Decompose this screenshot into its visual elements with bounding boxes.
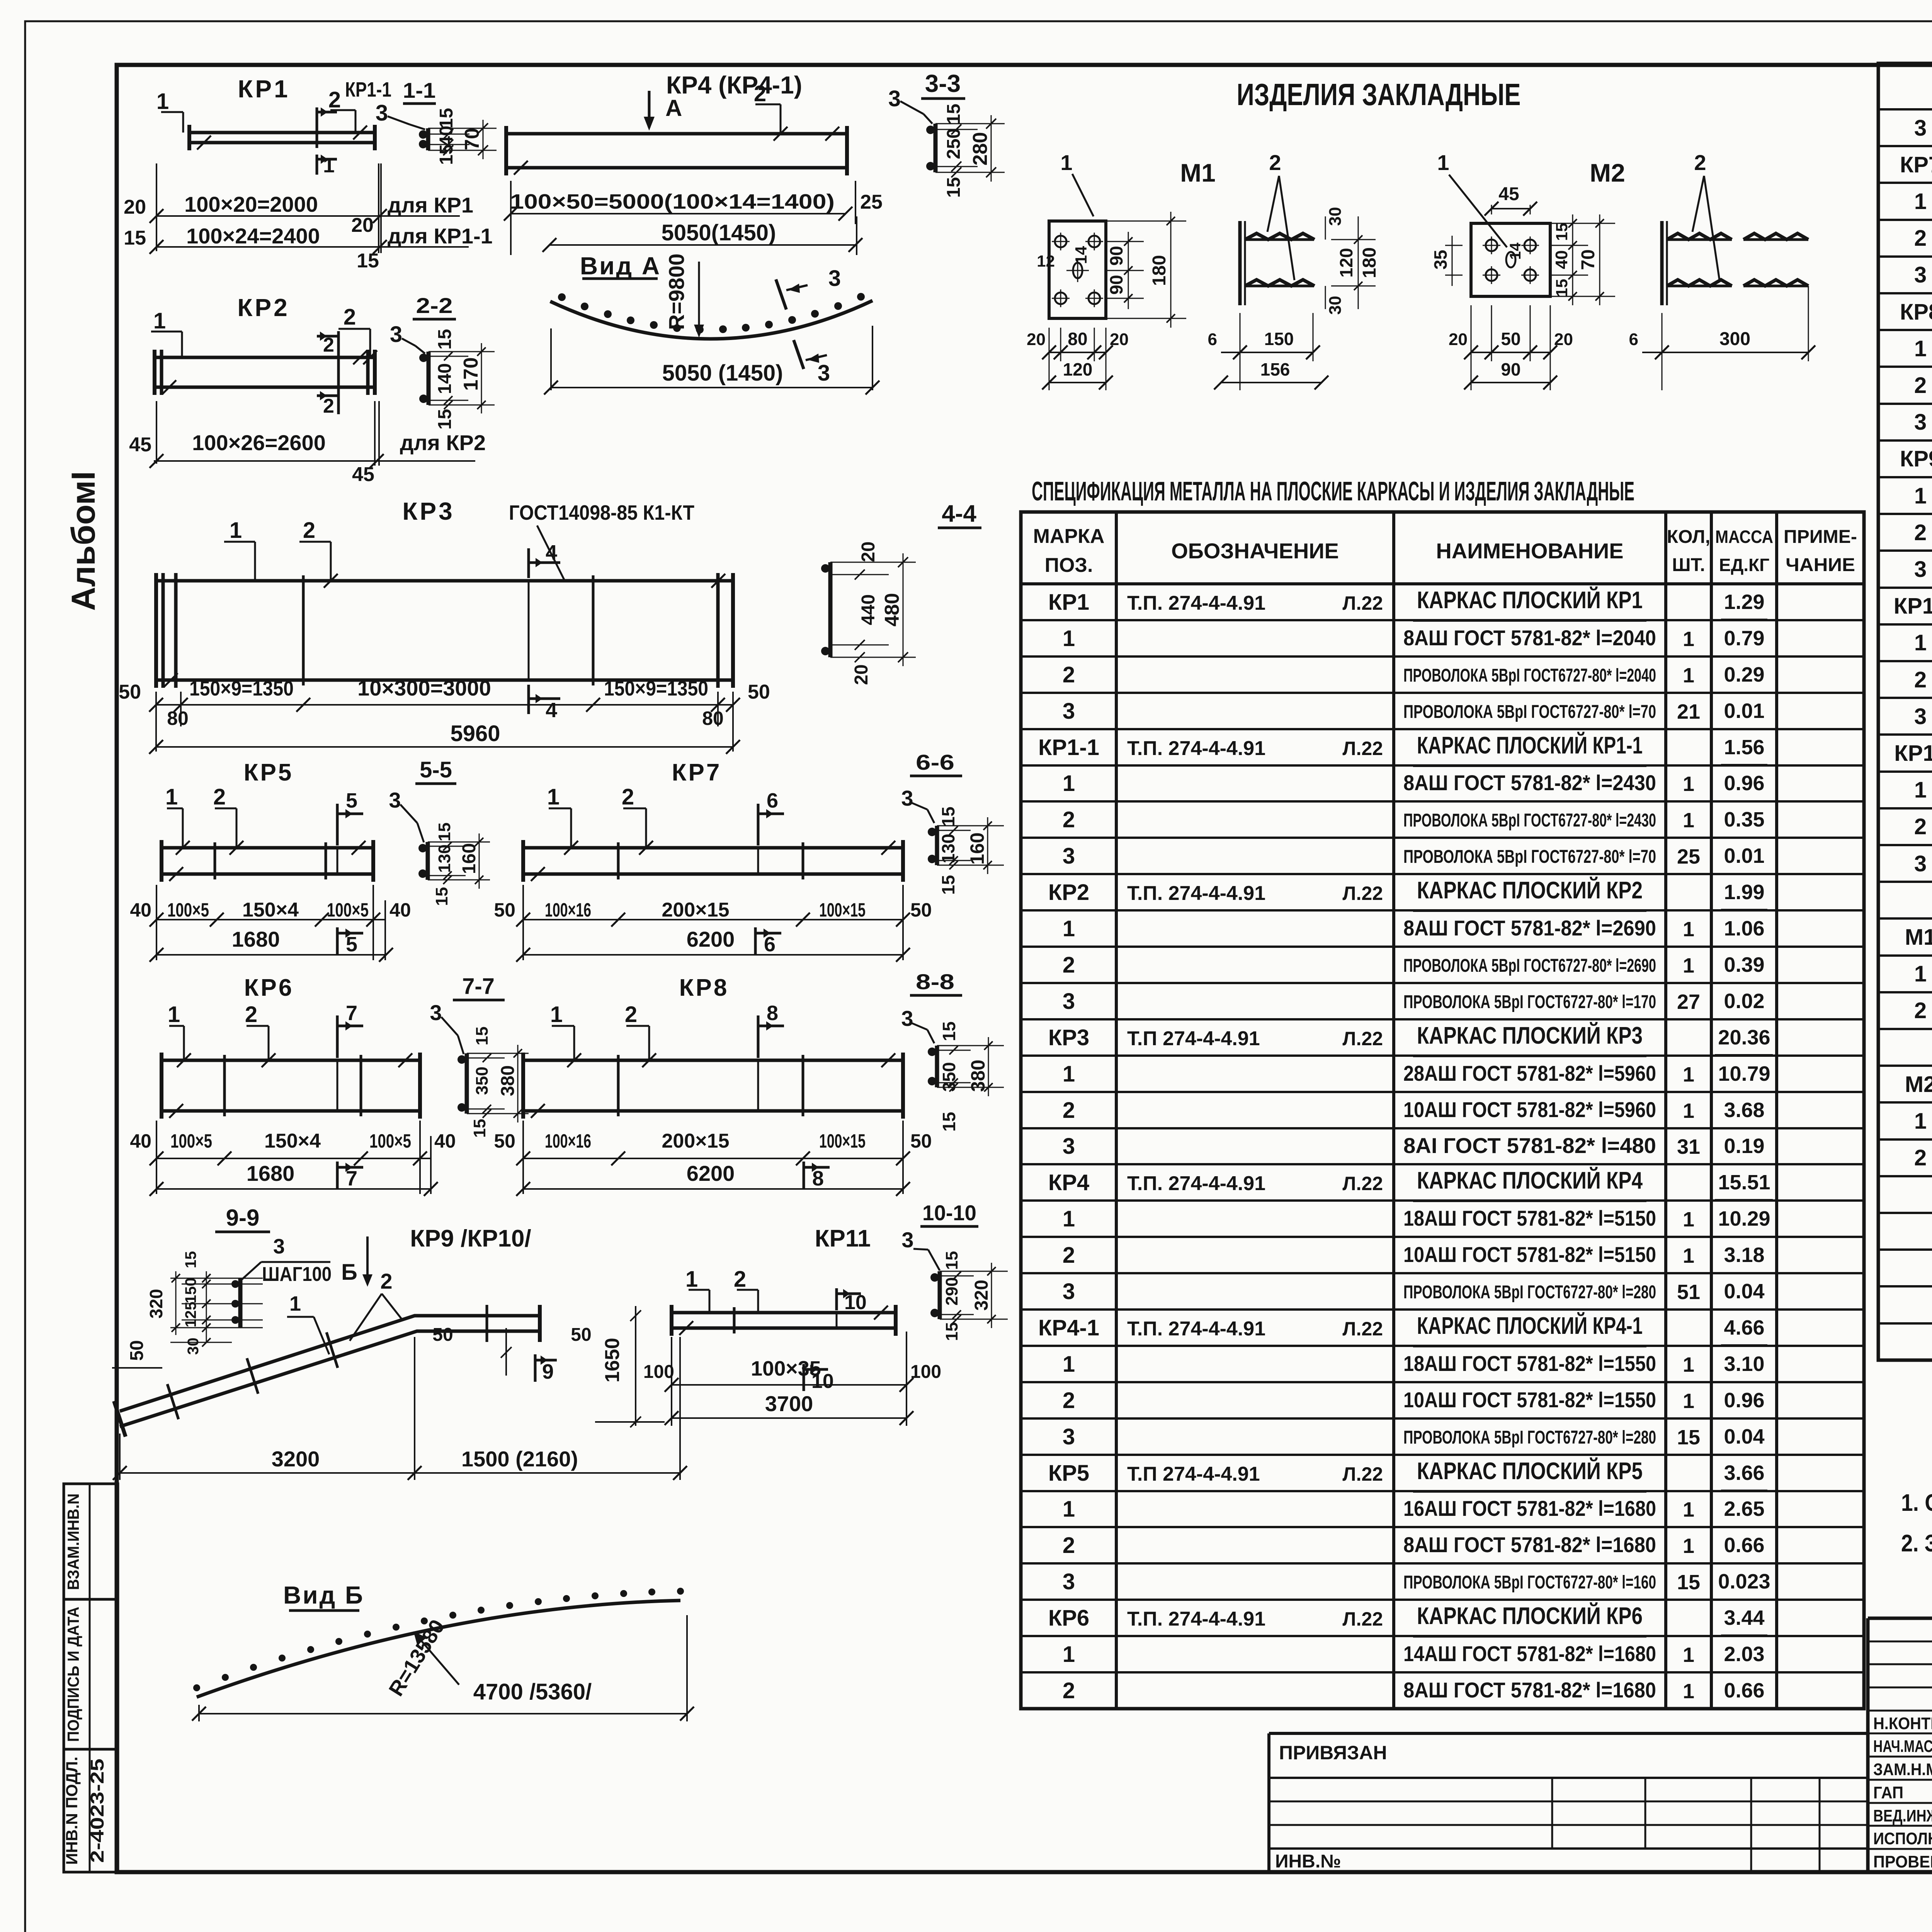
svg-text:КР8: КР8 [679, 975, 729, 1001]
section cut flag 1 below beam KR1 [316, 155, 318, 175]
svg-text:20: 20 [351, 214, 374, 236]
svg-text:1: 1 [1683, 1063, 1694, 1086]
svg-text:Т.П. 274-4-4.91: Т.П. 274-4-4.91 [1127, 882, 1265, 905]
svg-text:1: 1 [1063, 1497, 1075, 1522]
svg-text:5050 (1450): 5050 (1450) [662, 361, 783, 386]
svg-text:1: 1 [1683, 1353, 1694, 1376]
svg-text:2-4023-25: 2-4023-25 [87, 1759, 108, 1863]
svg-text:1: 1 [1060, 150, 1072, 175]
section cut line through beam KR3 [528, 581, 530, 680]
svg-text:М2: М2 [1590, 158, 1625, 187]
svg-text:Л.22: Л.22 [1342, 592, 1383, 614]
svg-text:15.51: 15.51 [1718, 1171, 1770, 1194]
svg-text:0.66: 0.66 [1724, 1534, 1764, 1557]
svg-text:КР11: КР11 [1894, 741, 1932, 766]
embed M2 anchors plate [1660, 221, 1664, 305]
svg-text:1.56: 1.56 [1724, 736, 1764, 759]
svg-text:3: 3 [1063, 844, 1075, 869]
svg-text:280: 280 [969, 132, 992, 166]
svg-text:100×26=2600: 100×26=2600 [192, 430, 326, 455]
svg-text:10×300=3000: 10×300=3000 [357, 676, 491, 700]
title block attachment grid [1269, 1777, 1868, 1779]
table row 1 ПОЛОСА|Б-2 6 х70 ГОСТ103-7 [1878, 1101, 1932, 1104]
svg-text:156: 156 [1260, 359, 1290, 379]
svg-text:15: 15 [944, 177, 964, 197]
table row 2 8АШ ГОСТ 5781-82* l=1680 [1021, 1526, 1864, 1528]
svg-text:5050(1450): 5050(1450) [662, 220, 776, 245]
title block attachment row [1269, 1732, 1868, 1735]
svg-text:5: 5 [346, 933, 357, 956]
beam KR6 overall dimension 1680 [156, 1188, 431, 1190]
svg-text:25: 25 [1677, 845, 1700, 868]
svg-text:50: 50 [571, 1325, 591, 1345]
svg-text:Т.П. 274-4-4.91: Т.П. 274-4-4.91 [1127, 1172, 1265, 1195]
svg-text:Т.П 274-4-4.91: Т.П 274-4-4.91 [1127, 1463, 1260, 1485]
svg-text:ЕД.КГ: ЕД.КГ [1719, 555, 1769, 575]
svg-text:3: 3 [376, 100, 388, 126]
svg-text:1650: 1650 [601, 1338, 624, 1383]
svg-text:Б: Б [341, 1260, 357, 1285]
svg-text:ИСПОЛН.: ИСПОЛН. [1873, 1829, 1932, 1848]
beam KR9 KR10 inclined body [120, 1316, 540, 1411]
svg-text:160: 160 [966, 832, 988, 864]
table row 2 10АШ ГОСТ 5781-82* l=6200 [1878, 219, 1932, 221]
svg-text:200×15: 200×15 [662, 899, 730, 921]
svg-text:2: 2 [1914, 667, 1927, 692]
svg-text:1: 1 [1683, 664, 1694, 687]
section 10-10 bar [938, 1271, 942, 1319]
svg-text:1: 1 [1683, 918, 1694, 941]
svg-text:МАССА: МАССА [1715, 527, 1773, 547]
section 8-8 bar [935, 1046, 939, 1087]
svg-text:2: 2 [1063, 1243, 1075, 1268]
svg-text:1: 1 [1683, 1534, 1694, 1558]
svg-text:10АШ ГОСТ 5781-82* l=5150: 10АШ ГОСТ 5781-82* l=5150 [1403, 1242, 1656, 1267]
section 6-6 bar [935, 826, 939, 865]
beam KR7 dimension lines [522, 885, 524, 960]
beam KR3 body [156, 579, 733, 583]
table row КР4-1 КАРКАС ПЛОСКИЙ КР4-1 [1021, 1308, 1864, 1311]
svg-text:20: 20 [1110, 330, 1129, 349]
section 1-1 dimension 40 [428, 134, 469, 135]
section cut flag 3 below arc [794, 340, 804, 369]
side stamp column INV N PODL [64, 1749, 118, 1872]
svg-text:50: 50 [910, 899, 932, 921]
beam KR9 height dimension 1650 [635, 1306, 636, 1426]
svg-text:2. ЗАКЛАДНЫЕ ИЗДЕЛИЯ ПОКРЫВА: 2. ЗАКЛАДНЫЕ ИЗДЕЛИЯ ПОКРЫВАЮТСЯ АНТИКОР… [1901, 1530, 1932, 1557]
table row 2 8АШ ГОСТ 5781-82* l=1680 [1021, 1671, 1864, 1673]
beam KR9 end bar right [538, 1305, 542, 1342]
svg-text:ПРОВОЛОКА 5ВрI ГОСТ6727-80* l=: ПРОВОЛОКА 5ВрI ГОСТ6727-80* l=2430 [1403, 810, 1656, 831]
svg-text:15: 15 [1677, 1426, 1700, 1449]
table row 1 18АШ ГОСТ 5781-82* l=5300 [1878, 476, 1932, 478]
svg-text:9: 9 [542, 1360, 554, 1383]
svg-text:3: 3 [1063, 989, 1075, 1014]
svg-text:2: 2 [303, 518, 315, 543]
svg-text:КР7: КР7 [1900, 152, 1932, 177]
beam KR8 body [523, 1059, 903, 1062]
section cut flag 2 above beam KR2 [337, 331, 340, 355]
svg-text:КР4 (КР4-1): КР4 (КР4-1) [666, 71, 802, 99]
svg-text:0.39: 0.39 [1724, 953, 1764, 976]
embed M1 plate [1049, 221, 1106, 318]
svg-text:ИЗДЕЛИЯ ЗАКЛАДНЫЕ: ИЗДЕЛИЯ ЗАКЛАДНЫЕ [1237, 77, 1521, 112]
embed M1 plate side dimensions [1106, 241, 1144, 242]
svg-text:3: 3 [1914, 410, 1927, 435]
svg-text:ПРОВОЛОКА 5ВрI ГОСТ6727-80* l=: ПРОВОЛОКА 5ВрI ГОСТ6727-80* l=170 [1403, 992, 1656, 1012]
svg-text:1680: 1680 [247, 1161, 295, 1185]
svg-text:8: 8 [812, 1167, 824, 1190]
section cut flag 7 above beam KR6 [336, 1015, 339, 1058]
svg-text:50: 50 [432, 1325, 453, 1345]
svg-text:15: 15 [942, 1251, 961, 1270]
svg-text:8-8: 8-8 [916, 969, 954, 994]
beam KR3 overall dimension 5960 [156, 746, 733, 748]
svg-text:КАРКАС ПЛОСКИЙ КР4-1: КАРКАС ПЛОСКИЙ КР4-1 [1417, 1312, 1643, 1339]
svg-text:КР4: КР4 [1048, 1170, 1089, 1195]
svg-text:15: 15 [435, 329, 455, 349]
embed M2 left dimension 35 [1445, 245, 1463, 246]
svg-text:15: 15 [432, 887, 451, 906]
svg-text:3.44: 3.44 [1724, 1606, 1764, 1629]
section 4-4 overall dimension 480 [889, 562, 916, 563]
table row М1 ИЗДЕЛИЕ ЗАКЛАДНОЕ М1 [1878, 917, 1932, 920]
svg-text:6200: 6200 [687, 927, 735, 951]
table row 1 18АШ ГОСТ 5781-82* l=5150 [1021, 1199, 1864, 1202]
table row 3 ПРОВОЛОКА 5ВрI ГОСТ6727-80 [1021, 837, 1864, 839]
table row 3 ПРОВОЛОКА 5ВрI ГОСТ6727-80 [1878, 844, 1932, 846]
view A arc dots [558, 293, 566, 301]
svg-text:ПОДПИСЬ И ДАТА: ПОДПИСЬ И ДАТА [64, 1607, 82, 1742]
table row 3 ПРОВОЛОКА 5ВрI ГОСТ6727-80 [1021, 982, 1864, 984]
table row 2 8АШ ГОСТ 5781-82* l=300 [1878, 1138, 1932, 1141]
svg-text:0.023: 0.023 [1718, 1570, 1770, 1593]
table row 3 ПРОВОЛОКА 5ВрI ГОСТ6727-80 [1021, 1417, 1864, 1420]
svg-text:ГАП: ГАП [1873, 1783, 1903, 1802]
svg-text:1: 1 [1914, 336, 1927, 361]
section 10-10 dimensions 15 290 15 [940, 1271, 974, 1272]
table row pos [1878, 1028, 1932, 1030]
svg-text:100×50=5000(100×14=1400): 100×50=5000(100×14=1400) [510, 190, 835, 213]
svg-text:2: 2 [1063, 1533, 1075, 1558]
section 3-3 dimensions 15 250 15 [935, 123, 978, 124]
svg-text:2: 2 [1063, 1678, 1075, 1703]
section 8-8 overall dimension 380 [971, 1045, 1004, 1046]
svg-text:ПРОВОЛОКА 5ВрI ГОСТ6727-80* l=: ПРОВОЛОКА 5ВрI ГОСТ6727-80* l=280 [1403, 1282, 1656, 1303]
svg-text:45: 45 [129, 434, 151, 456]
svg-text:3200: 3200 [272, 1447, 320, 1471]
embed M1 plate bottom dimensions [1049, 328, 1050, 390]
table row КР9 КАРКАС ПЛОСКИЙ КР9 [1878, 439, 1932, 442]
svg-text:380: 380 [498, 1065, 518, 1096]
svg-text:6: 6 [764, 933, 776, 956]
svg-text:КР2: КР2 [1048, 880, 1089, 905]
svg-text:250: 250 [944, 128, 964, 159]
svg-text:10: 10 [844, 1291, 867, 1314]
beam KR1 dimension line 100x24=2400 [156, 246, 469, 248]
beam KR7 overall dimension 6200 [523, 954, 903, 956]
svg-text:480: 480 [881, 593, 903, 627]
section cut flag 8 below beam KR8 [803, 1162, 805, 1189]
svg-text:КР3: КР3 [1048, 1025, 1089, 1050]
svg-text:1: 1 [685, 1267, 698, 1292]
svg-text:100×24=2400: 100×24=2400 [186, 224, 320, 248]
svg-text:КАРКАС ПЛОСКИЙ КР1: КАРКАС ПЛОСКИЙ КР1 [1417, 587, 1643, 614]
svg-text:5960: 5960 [450, 721, 500, 746]
table row 3 8АI ГОСТ 5781-82* l=480 [1021, 1127, 1864, 1129]
table row 1 18АШ ГОСТ 5781-82* l=3700 [1878, 770, 1932, 773]
svg-text:КР1-1: КР1-1 [345, 78, 391, 101]
table row КР7 КАРКАС ПЛОСКИЙ КР7 [1878, 145, 1932, 147]
svg-text:3.10: 3.10 [1724, 1352, 1764, 1376]
svg-text:3: 3 [1063, 699, 1075, 724]
beam KR5 dimension lines [156, 885, 157, 960]
table row pos [1878, 1285, 1932, 1287]
svg-text:15: 15 [1553, 223, 1571, 241]
svg-text:1500 (2160): 1500 (2160) [461, 1447, 578, 1471]
section 3-3 overall dimension 280 [978, 123, 1005, 124]
beam KR8 overall dimension 6200 [523, 1188, 903, 1190]
svg-text:28АШ ГОСТ 5781-82* l=5960: 28АШ ГОСТ 5781-82* l=5960 [1403, 1061, 1656, 1085]
svg-text:R=9800: R=9800 [664, 253, 689, 330]
svg-text:50: 50 [910, 1130, 932, 1152]
svg-text:2.03: 2.03 [1724, 1643, 1764, 1666]
svg-text:ВЗАМ.ИНВ.N: ВЗАМ.ИНВ.N [64, 1493, 82, 1590]
svg-text:3: 3 [1914, 116, 1927, 141]
svg-text:3: 3 [901, 786, 913, 810]
svg-text:14: 14 [1507, 242, 1524, 260]
table row 3 ПРОВОЛОКА 5ВрI ГОСТ6727-80 [1878, 697, 1932, 699]
beam KR5 overall dimension 1680 [156, 954, 386, 956]
svg-text:2: 2 [1063, 952, 1075, 978]
svg-text:50: 50 [494, 899, 515, 921]
svg-text:КР1: КР1 [238, 75, 290, 103]
section cut flag 5 below beam KR5 [336, 927, 339, 955]
svg-text:15: 15 [435, 823, 454, 842]
svg-text:2.65: 2.65 [1724, 1497, 1764, 1520]
svg-text:3: 3 [818, 361, 830, 386]
svg-text:40: 40 [389, 899, 411, 921]
svg-text:1: 1 [1683, 1680, 1694, 1703]
svg-text:1: 1 [1914, 777, 1927, 803]
svg-text:8АШ ГОСТ 5781-82* l=1680: 8АШ ГОСТ 5781-82* l=1680 [1403, 1532, 1656, 1557]
svg-text:45: 45 [352, 463, 374, 486]
section 1-1 dimension 15 [428, 128, 469, 129]
svg-text:ПРИМЕ-: ПРИМЕ- [1784, 527, 1857, 547]
svg-text:5-5: 5-5 [420, 757, 452, 782]
svg-text:25: 25 [860, 191, 883, 213]
svg-text:2: 2 [1063, 807, 1075, 832]
svg-text:150×9=1350: 150×9=1350 [189, 677, 294, 700]
beam KR2 dimension extension lines [156, 401, 157, 464]
svg-text:2: 2 [1914, 373, 1927, 398]
section 3-3 bar [934, 124, 938, 172]
svg-text:50: 50 [494, 1130, 515, 1152]
table row 3 ПРОВОЛОКА 5ВрI ГОСТ 6727-8 [1878, 403, 1932, 405]
section 5-5 dimensions 15 130 15 [428, 842, 466, 843]
svg-text:120: 120 [1063, 359, 1093, 379]
svg-text:3.68: 3.68 [1724, 1099, 1764, 1122]
table row pos [1878, 1322, 1932, 1325]
svg-text:ПРОВОЛОКА 5ВрI ГОСТ6727-80* l=: ПРОВОЛОКА 5ВрI ГОСТ6727-80* l=2690 [1403, 956, 1656, 976]
beam KR4 body [506, 132, 847, 136]
table row 2 10АШ ГОСТ 5781-82* l=5960 [1878, 660, 1932, 662]
table row КР11 КАРКАС ПЛОСКИЙ КР11 [1878, 733, 1932, 736]
svg-text:ПРИВЯЗАН: ПРИВЯЗАН [1279, 1742, 1387, 1764]
svg-text:1.06: 1.06 [1724, 917, 1764, 940]
svg-text:1680: 1680 [232, 927, 280, 951]
svg-text:НАИМЕНОВАНИЕ: НАИМЕНОВАНИЕ [1436, 539, 1623, 563]
svg-text:1.29: 1.29 [1724, 590, 1764, 614]
svg-text:2: 2 [1914, 520, 1927, 545]
beam KR3 dimension line row [155, 692, 157, 752]
section 6-6 overall dimension 160 [971, 825, 1004, 827]
svg-text:3: 3 [1914, 262, 1927, 287]
svg-text:170: 170 [460, 357, 482, 391]
svg-text:0.29: 0.29 [1724, 663, 1764, 686]
beam KR4 dimension extension lines [510, 181, 512, 255]
section cut flag 5 above beam KR5 [336, 804, 339, 845]
svg-text:Л.22: Л.22 [1342, 738, 1383, 759]
svg-text:380: 380 [967, 1060, 989, 1092]
svg-text:1: 1 [1683, 1208, 1694, 1231]
svg-text:1: 1 [165, 784, 178, 810]
beam KR1 dimension extension lines [156, 163, 157, 251]
section cut flag 6 below beam KR7 [754, 927, 757, 955]
svg-text:3.18: 3.18 [1724, 1243, 1764, 1267]
svg-text:15: 15 [436, 108, 457, 128]
svg-text:1: 1 [289, 1292, 301, 1315]
svg-text:3: 3 [1063, 1569, 1075, 1594]
embed M2 plate [1471, 223, 1550, 296]
table row 1 18АШ ГОСТ 5781-82* l=6200 [1878, 182, 1932, 184]
svg-text:КР9: КР9 [1900, 446, 1932, 471]
svg-text:10АШ ГОСТ 5781-82* l=5960: 10АШ ГОСТ 5781-82* l=5960 [1403, 1097, 1656, 1122]
spec table frame [1021, 512, 1864, 1709]
table row 2 10АШ ГОСТ 5781-82* l=1550 [1021, 1381, 1864, 1383]
svg-text:КР10: КР10 [1894, 594, 1932, 619]
svg-text:1: 1 [1063, 1642, 1075, 1667]
svg-text:8: 8 [767, 1002, 778, 1025]
table row 2 8АШ ГОСТ 5781-82* l=150 [1878, 991, 1932, 993]
table row КР1 КАРКАС ПЛОСКИЙ КР1 [1021, 583, 1864, 585]
svg-text:45: 45 [1498, 184, 1519, 204]
svg-text:1: 1 [230, 518, 242, 543]
section 9-9 bar [238, 1278, 243, 1328]
svg-text:130: 130 [435, 844, 454, 872]
svg-text:КР8: КР8 [1900, 299, 1932, 325]
view A arc of KR4 [550, 301, 872, 339]
svg-text:8АШ ГОСТ 5781-82* l=1680: 8АШ ГОСТ 5781-82* l=1680 [1403, 1678, 1656, 1702]
svg-text:15: 15 [435, 409, 455, 429]
svg-text:Л.22: Л.22 [1342, 1318, 1383, 1340]
table row КР4 КАРКАС ПЛОСКИЙ КР4 [1021, 1163, 1864, 1165]
svg-text:15: 15 [124, 227, 146, 249]
svg-text:18АШ ГОСТ 5781-82* l=1550: 18АШ ГОСТ 5781-82* l=1550 [1403, 1351, 1656, 1376]
svg-text:350: 350 [473, 1066, 492, 1095]
section cut flag 4 above beam KR3 [527, 548, 530, 578]
svg-text:0.35: 0.35 [1724, 808, 1764, 831]
svg-text:15: 15 [944, 104, 964, 124]
svg-text:0.01: 0.01 [1724, 699, 1764, 723]
svg-text:80: 80 [1068, 329, 1087, 349]
beam KR5 body [162, 846, 373, 850]
svg-text:Вид Б: Вид Б [283, 1581, 364, 1609]
section cut line through beam KR8 [757, 1060, 759, 1111]
svg-text:КОЛ,: КОЛ, [1667, 527, 1710, 547]
svg-text:1: 1 [156, 89, 169, 114]
svg-text:0.96: 0.96 [1724, 1389, 1764, 1412]
section cut flag 3 above arc [776, 279, 786, 310]
beam KR11 dimension lines [671, 1337, 672, 1426]
section cut flag 2 below beam KR2 [337, 390, 340, 414]
svg-text:150: 150 [1264, 329, 1294, 349]
section 4-4 dimensions 20 440 20 [830, 562, 889, 563]
svg-text:3: 3 [1063, 1279, 1075, 1304]
svg-text:6: 6 [1208, 330, 1217, 349]
table row 3 ПРОВОЛОКА 5ВрI ГОСТ6727-80 [1878, 108, 1932, 111]
svg-text:НАЧ.МАСТ.: НАЧ.МАСТ. [1873, 1737, 1932, 1756]
svg-text:8АШ ГОСТ 5781-82* l=2430: 8АШ ГОСТ 5781-82* l=2430 [1403, 770, 1656, 795]
svg-text:3: 3 [1914, 557, 1927, 582]
svg-text:100×16: 100×16 [545, 1130, 591, 1152]
section 6-6 dimensions 15 130 15 [937, 825, 971, 827]
svg-text:0.04: 0.04 [1724, 1425, 1764, 1448]
svg-text:90: 90 [1106, 246, 1126, 265]
svg-text:3: 3 [901, 1228, 913, 1252]
svg-text:5: 5 [346, 789, 357, 812]
table row 3 ПРОВОЛОКА 5ВрI ГОСТ6727-80 [1021, 692, 1864, 694]
svg-text:1: 1 [1683, 1643, 1694, 1667]
beam KR2 dimension line 100x26=2600 [154, 460, 475, 462]
svg-text:1: 1 [1914, 1109, 1927, 1134]
svg-text:120: 120 [1336, 248, 1356, 278]
svg-text:7: 7 [346, 1002, 357, 1025]
svg-text:20: 20 [858, 541, 879, 562]
section 1-1 bar [426, 128, 430, 150]
svg-text:2: 2 [245, 1002, 257, 1027]
svg-text:2: 2 [1914, 1145, 1927, 1170]
table row КР10 КАРКАС ПЛОСКИЙ КР10 [1878, 587, 1932, 589]
table row pos [1878, 1212, 1932, 1214]
svg-text:МАРКА: МАРКА [1033, 525, 1105, 548]
svg-text:3: 3 [1914, 704, 1927, 729]
svg-text:КР9 /КР10/: КР9 /КР10/ [410, 1225, 531, 1252]
embed M1 anchors dimensions [1325, 216, 1326, 240]
arc dimension 5050(1450) [550, 328, 552, 390]
svg-text:Т.П. 274-4-4.91: Т.П. 274-4-4.91 [1127, 592, 1265, 614]
svg-text:Вид А: Вид А [580, 252, 661, 280]
svg-text:100×5: 100×5 [170, 1130, 212, 1152]
svg-text:440: 440 [858, 594, 879, 625]
svg-text:21: 21 [1677, 700, 1700, 723]
svg-text:10-10: 10-10 [922, 1201, 976, 1225]
svg-text:4-4: 4-4 [942, 500, 976, 527]
svg-text:3.66: 3.66 [1724, 1461, 1764, 1485]
svg-text:Т.П. 274-4-4.91: Т.П. 274-4-4.91 [1127, 1318, 1265, 1340]
section cut flag 9 [534, 1354, 537, 1382]
svg-text:Т.П 274-4-4.91: Т.П 274-4-4.91 [1127, 1027, 1260, 1050]
svg-text:2: 2 [1269, 150, 1281, 175]
section 7-7 bar [465, 1053, 469, 1114]
svg-text:100×16: 100×16 [545, 899, 591, 921]
svg-text:100×20=2000: 100×20=2000 [184, 192, 318, 216]
svg-text:1: 1 [1683, 628, 1694, 651]
table row 1 28АШ ГОСТ 5781-82* l=5960 [1021, 1054, 1864, 1057]
section 5-5 bar [426, 842, 430, 880]
svg-text:0.04: 0.04 [1724, 1280, 1764, 1303]
svg-text:125: 125 [182, 1302, 199, 1328]
